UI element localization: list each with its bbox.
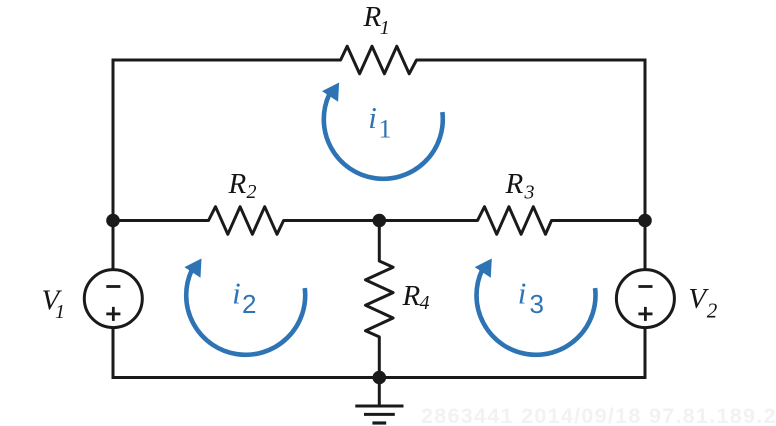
svg-text:3: 3: [524, 182, 535, 204]
svg-text:i: i: [232, 276, 241, 311]
svg-text:3: 3: [530, 289, 544, 319]
svg-text:R: R: [228, 168, 247, 200]
svg-text:R: R: [402, 280, 421, 312]
svg-text:R: R: [363, 1, 382, 33]
svg-text:R: R: [505, 168, 524, 200]
svg-text:2: 2: [707, 299, 718, 323]
svg-text:1: 1: [379, 115, 392, 144]
svg-text:4: 4: [420, 292, 430, 314]
svg-text:i: i: [368, 100, 377, 135]
svg-text:2: 2: [247, 181, 257, 203]
svg-text:2863441 2014/09/18 97.81.189.2: 2863441 2014/09/18 97.81.189.2: [421, 404, 776, 426]
svg-text:i: i: [518, 276, 527, 311]
svg-text:1: 1: [55, 301, 65, 323]
svg-text:1: 1: [380, 17, 390, 39]
svg-text:2: 2: [242, 289, 256, 319]
